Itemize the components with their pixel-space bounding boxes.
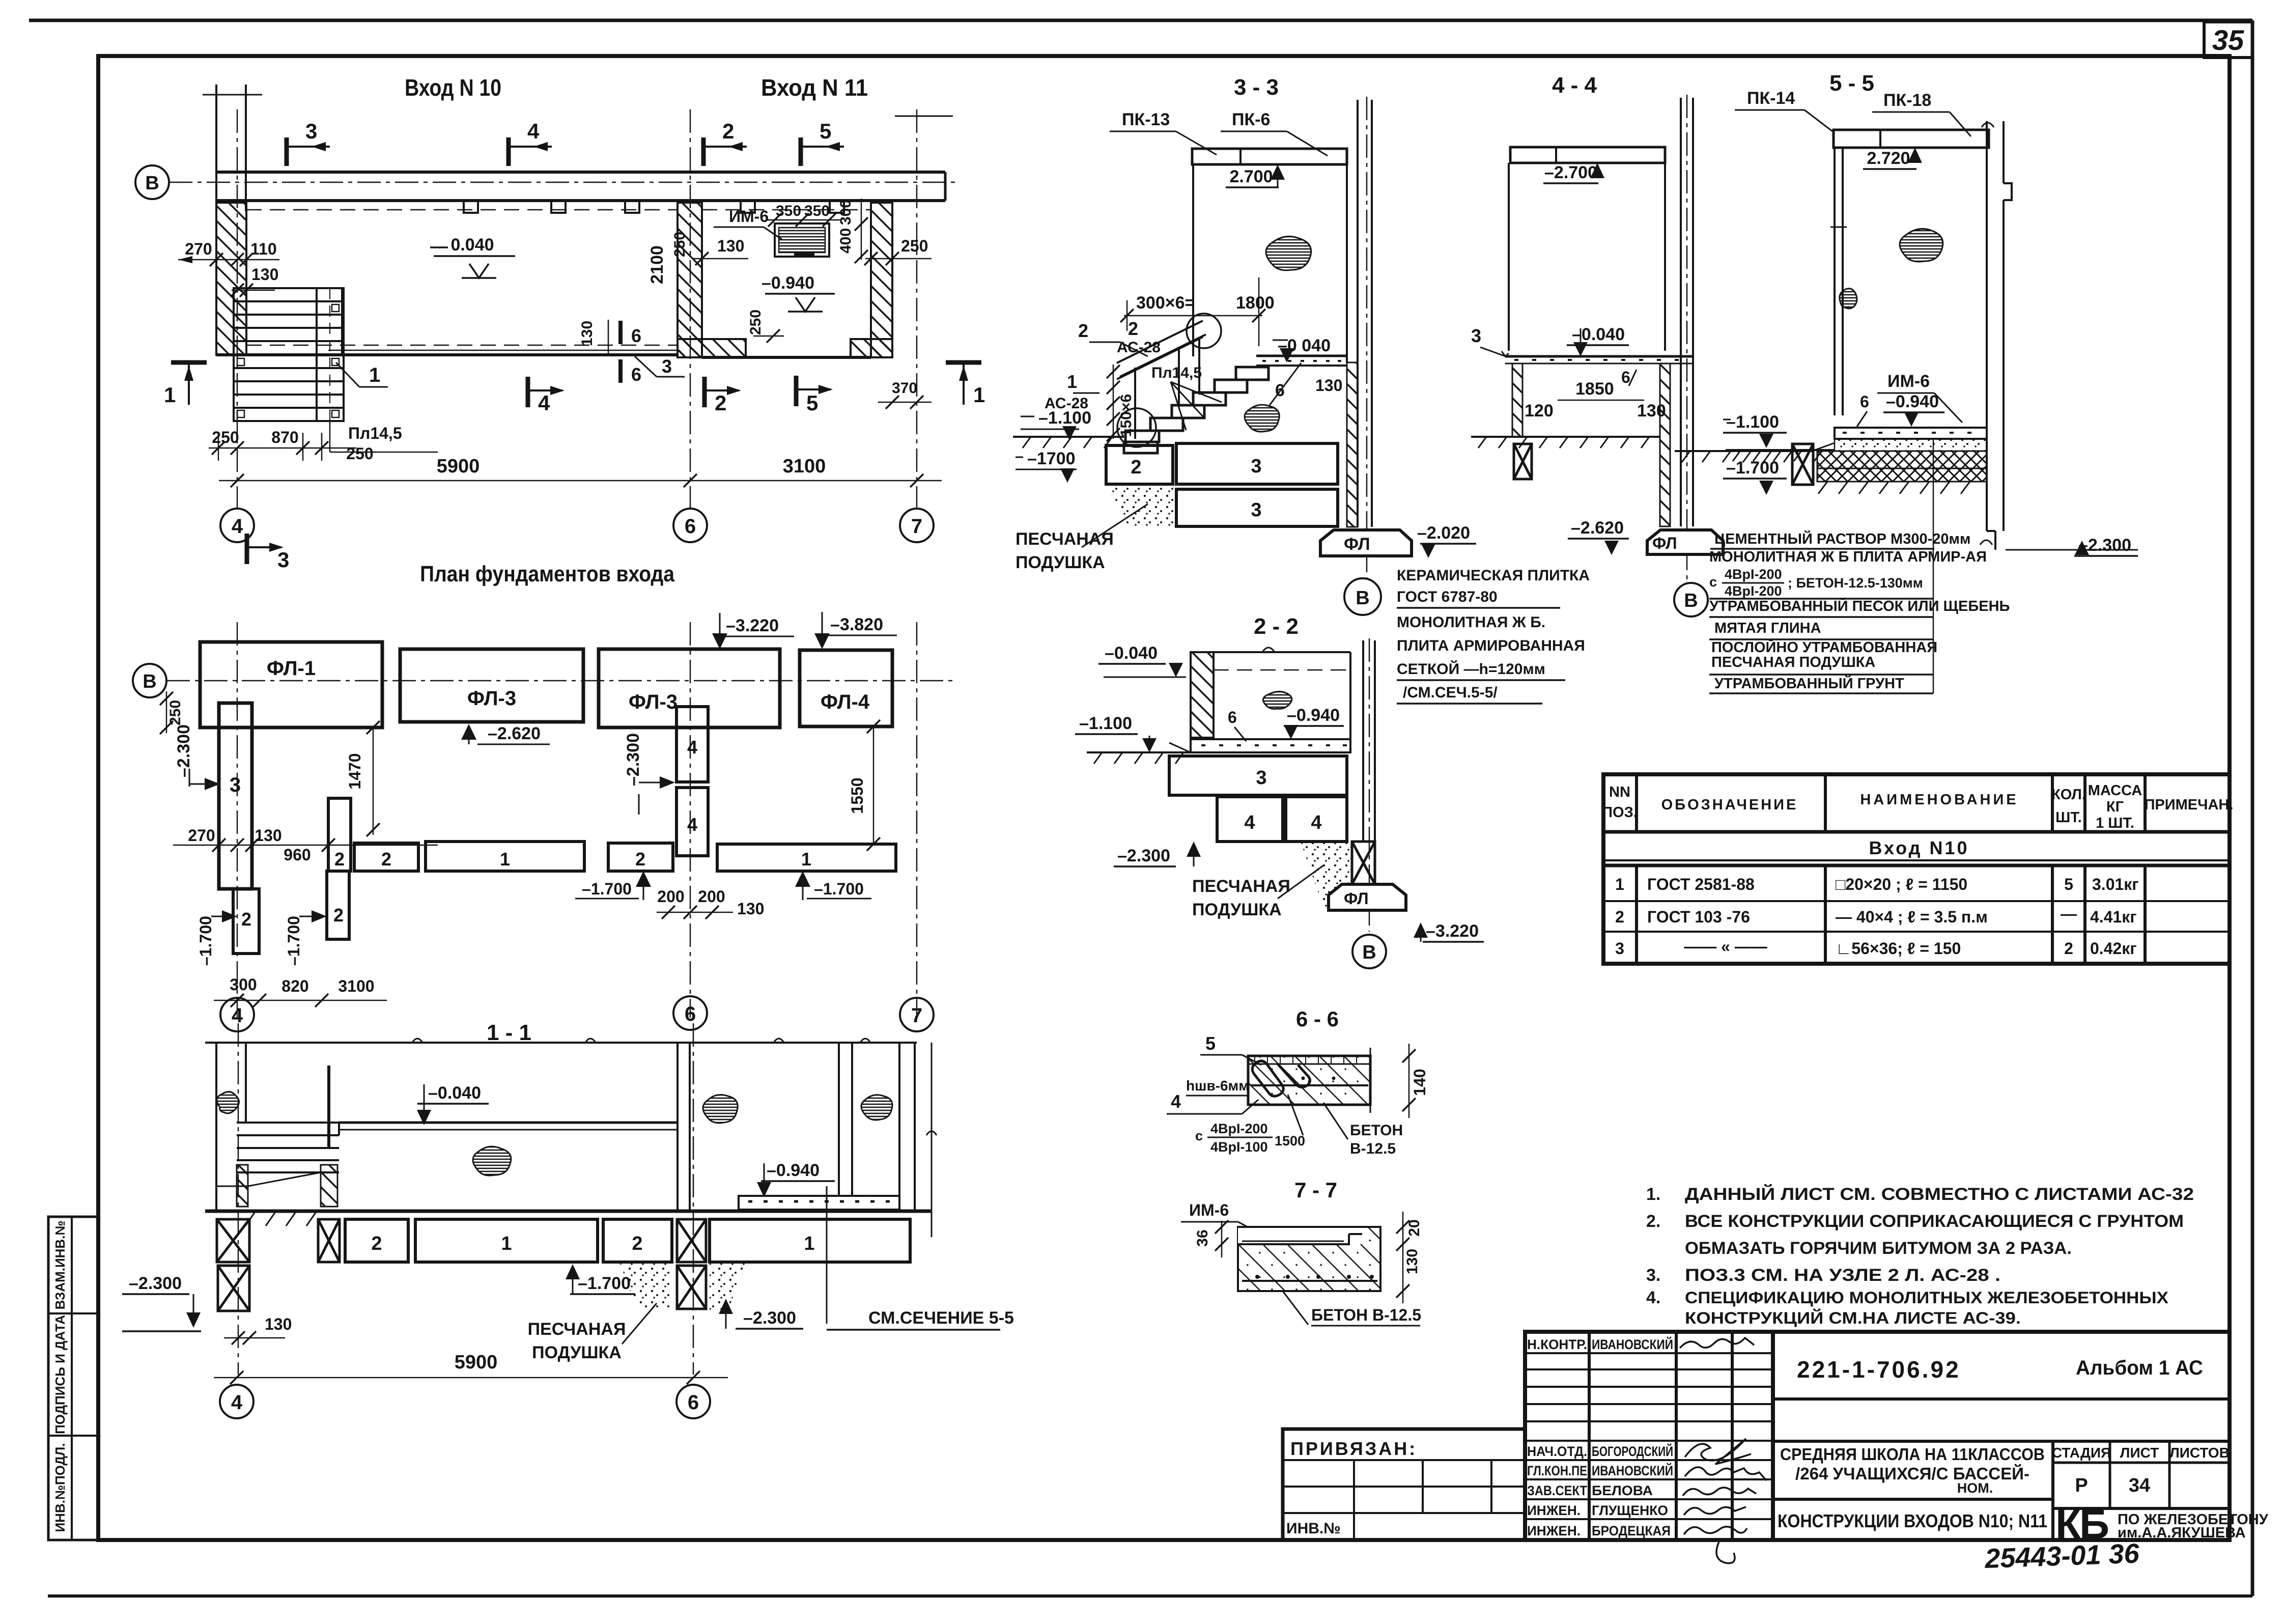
svg-text:3: 3 [662,356,672,377]
svg-text:130: 130 [737,900,764,918]
slab body [1248,1056,1370,1105]
axis circle 6 [673,509,707,542]
svg-text:4: 4 [687,814,697,835]
canopy slab top edge [216,171,945,174]
stair hatched feet [237,1165,248,1207]
block FL-3 first [400,649,583,722]
svg-text:УТРАМБОВАННЫЙ ГРУНТ: УТРАМБОВАННЫЙ ГРУНТ [1714,675,1904,692]
bottom dim 250/870/250 [209,447,356,449]
svg-text:4ВрI-200: 4ВрI-200 [1725,567,1782,582]
leader line down to layers text [1933,439,1934,693]
footing FL [1647,530,1723,554]
railing posts [1134,368,1136,439]
svg-text:4: 4 [1171,1091,1181,1112]
section mark 6 lower [618,359,623,383]
svg-text:МЯТАЯ ГЛИНА: МЯТАЯ ГЛИНА [1714,620,1821,636]
svg-text:МАССА: МАССА [2088,782,2142,799]
svg-text:250: 250 [167,700,184,725]
svg-text:–1.100: –1.100 [1726,412,1779,432]
svg-text:МОНОЛИТНАЯ Ж Б ПЛИТА АРМИР-АЯ: МОНОЛИТНАЯ Ж Б ПЛИТА АРМИР-АЯ [1709,549,1987,565]
wall panel left edge [1192,164,1194,356]
svg-text:2: 2 [635,849,645,870]
svg-text:БЕТОН В-12.5: БЕТОН В-12.5 [1311,1306,1421,1324]
railing rails [1117,321,1203,363]
axis 7 line [916,109,918,509]
svg-text:Н.КОНТР.: Н.КОНТР. [1527,1337,1587,1352]
axis 6 line [690,622,691,1018]
svg-text:140: 140 [1411,1069,1429,1096]
TITLE-BLOCK [1283,1332,2269,1574]
svg-text:НАИМЕНОВАНИЕ: НАИМЕНОВАНИЕ [1860,792,2018,808]
row 3 [1615,937,2137,958]
svg-text:1: 1 [801,849,811,870]
KB logo cell [2055,1501,2269,1548]
svg-text:6: 6 [685,515,696,538]
monolithic slab with rebar right [739,1196,899,1210]
svg-text:ПЕСЧАНАЯ: ПЕСЧАНАЯ [1192,877,1290,896]
row lines [1603,900,2230,902]
svg-text:2 - 2: 2 - 2 [1254,614,1299,639]
staff names [1527,1336,1673,1538]
svg-text:25443-01 36: 25443-01 36 [1984,1538,2140,1574]
leader label 1 [336,362,359,387]
SECTION-2-2 [1075,614,1484,968]
svg-text:–2.620: –2.620 [488,724,541,743]
svg-text:–1700: –1700 [1027,449,1076,468]
svg-text:2100: 2100 [647,245,667,284]
foundation row: xbox left [217,1219,249,1262]
school name cell [1780,1445,2045,1496]
svg-text:В: В [1684,590,1698,611]
svg-text:План фундаментов входа: План фундаментов входа [420,562,674,586]
svg-text:В-12.5: В-12.5 [1350,1140,1396,1157]
svg-text:ГЛ.КОН.ПЕ: ГЛ.КОН.ПЕ [1527,1463,1587,1478]
svg-text:ФЛ-1: ФЛ-1 [267,657,316,680]
dim line 5900 [214,1377,728,1379]
svg-text:6: 6 [1228,708,1237,726]
svg-text:Р: Р [2075,1475,2088,1496]
middle block 2 upper [328,798,351,871]
svg-text:35: 35 [2212,24,2244,56]
vhod row bottom double [1603,859,2230,861]
sand wedge right [710,1262,746,1311]
hatched wall [1191,652,1214,738]
sand pad [1106,484,1175,526]
svg-text:ПК-6: ПК-6 [1232,110,1270,129]
svg-text:4: 4 [231,1391,243,1414]
svg-text:130: 130 [1315,376,1342,395]
middle wall bottom band [678,339,746,357]
section mark 6 upper [618,321,623,344]
svg-text:1470: 1470 [346,753,364,789]
svg-text:1: 1 [501,1233,512,1254]
svg-text:4: 4 [687,737,697,758]
PLAN-ENTRANCES [135,74,985,572]
axis B circle [135,165,169,199]
svg-text:–3.220: –3.220 [726,616,779,635]
svg-text:1 - 1: 1 - 1 [487,1020,531,1045]
foundation block 3 lower [1176,489,1338,526]
svg-text:200: 200 [657,887,684,906]
svg-text:ИМ-6: ИМ-6 [729,207,769,226]
svg-text:1800: 1800 [1236,293,1275,313]
svg-text:130: 130 [579,321,596,346]
svg-text:4ВрI-200: 4ВрI-200 [1725,583,1782,599]
svg-text:ПЕСЧАНАЯ: ПЕСЧАНАЯ [528,1320,626,1339]
stair blob [1245,405,1279,432]
floor line entrance 11 [702,356,871,359]
footing FL [1320,530,1412,556]
svg-text:1: 1 [500,849,510,870]
sand layer dotted [1835,439,1987,451]
svg-text:1: 1 [1067,371,1077,392]
svg-text:КОЛ.: КОЛ. [2051,787,2086,803]
svg-text:Пл14,5: Пл14,5 [348,424,402,442]
left blob [217,1091,239,1113]
row 1 [1615,875,2139,893]
column lines right [1680,98,1682,526]
detail circle lower [1117,408,1156,447]
tile layer [1248,1063,1370,1065]
svg-text:3.: 3. [1646,1266,1660,1285]
left wall hatched (entrance 10) [216,203,246,355]
horizontal rebar [1250,1084,1368,1086]
header separator [1603,830,2230,834]
svg-text:870: 870 [271,428,298,446]
svg-text:ЛИСТ: ЛИСТ [2120,1445,2159,1461]
interior dashed line top [246,209,678,211]
section mark 3 bottom left [247,534,289,572]
svg-text:350: 350 [776,203,801,219]
svg-text:МОНОЛИТНАЯ Ж Б.: МОНОЛИТНАЯ Ж Б. [1397,614,1545,631]
stairs stepped plates [1124,367,1268,453]
svg-text:3100: 3100 [338,977,374,995]
svg-text:СТАДИЯ: СТАДИЯ [2052,1445,2111,1461]
section mark 5 bottom [796,376,833,415]
svg-text:ГОСТ 2581-88: ГОСТ 2581-88 [1647,875,1755,893]
svg-text:–2.300: –2.300 [624,733,643,786]
wall blob small [1840,289,1857,309]
svg-text:–2.700: –2.700 [1544,163,1597,182]
svg-text:ШТ.: ШТ. [2055,809,2082,826]
svg-text:В: В [143,671,156,692]
svg-text:6: 6 [631,325,641,346]
svg-text:6: 6 [1860,393,1869,411]
svg-text:370: 370 [892,380,917,397]
section mark 3 top [287,119,330,166]
svg-text:–1.700: –1.700 [582,880,632,898]
svg-text:4: 4 [538,391,550,415]
column lines body [1637,865,2145,964]
stair upper flight (plan) [234,288,342,355]
svg-text:4: 4 [232,515,243,538]
svg-text:5900: 5900 [437,456,480,477]
svg-text:1: 1 [164,383,176,407]
floor slab right [1256,355,1347,357]
right edge [1349,652,1351,739]
wall blob [1266,236,1311,270]
svg-text:5 - 5: 5 - 5 [1829,71,1874,96]
svg-text:3: 3 [277,548,289,572]
svg-text:Вход N 10: Вход N 10 [405,74,501,101]
see section 5-5 reference line [826,1186,828,1324]
svg-text:–2.020: –2.020 [1417,523,1470,543]
stair lower flight (plan) [234,355,344,421]
svg-text:2.700: 2.700 [1229,167,1273,186]
page number box [2204,22,2252,58]
top edge [1191,651,1350,653]
svg-text:4: 4 [1311,812,1321,833]
svg-text:ПЕСЧАНАЯ ПОДУШКА: ПЕСЧАНАЯ ПОДУШКА [1711,654,1875,670]
svg-text:ИНЖЕН.: ИНЖЕН. [1527,1523,1581,1538]
sand wedge [1301,842,1352,907]
svg-text:130: 130 [1404,1249,1421,1274]
rebar dots row [1242,1280,1377,1282]
block 1 right [710,1219,910,1262]
canopy joint notches [464,201,478,213]
svg-text:–3.220: –3.220 [1426,921,1479,941]
svg-text:2: 2 [632,1233,642,1254]
svg-text:–1.700: –1.700 [578,1274,631,1293]
svg-text:5: 5 [1205,1033,1216,1054]
foundation block 2 [1106,445,1173,484]
ground line right [1726,449,1835,451]
canopy slab [1510,147,1665,163]
svg-text:НАЧ.ОТД.: НАЧ.ОТД. [1527,1444,1587,1459]
svg-text:4ВрI-200: 4ВрI-200 [1210,1121,1268,1136]
footing FL [1329,884,1406,910]
svg-text:110: 110 [250,240,277,258]
svg-text:1.: 1. [1646,1185,1660,1204]
wall panel [1508,163,1510,351]
outer top border line [29,19,2252,22]
axis circle 7 [900,998,934,1031]
block FL-3 second [599,649,780,727]
svg-text:0.040: 0.040 [450,235,494,255]
svg-text:–0.940: –0.940 [762,273,814,293]
section mark 2 bottom [704,377,741,415]
stage cells [2051,1441,2054,1540]
column lines [1362,640,1364,842]
svg-text:ЛИСТОВ: ЛИСТОВ [2169,1445,2230,1461]
column xbox [1352,842,1375,884]
svg-text:В: В [1356,587,1369,609]
axis 6 dash line [693,1023,694,1375]
svg-text:2: 2 [371,1233,382,1254]
svg-text:□20×20 ; ℓ = 1150: □20×20 ; ℓ = 1150 [1836,875,1967,893]
strip block 2b [608,843,673,871]
block 2 right [603,1219,672,1262]
svg-text:–2.620: –2.620 [1571,518,1624,538]
block 2 below 3 [233,889,259,954]
svg-text:БОГОРОДСКИЙ: БОГОРОДСКИЙ [1592,1443,1673,1459]
svg-text:350: 350 [804,203,830,219]
svg-text:СЕТКОЙ —h=120мм: СЕТКОЙ —h=120мм [1397,660,1545,678]
svg-text:ГЛУЩЕНКО: ГЛУЩЕНКО [1592,1503,1668,1518]
svg-text:Пл14,5: Пл14,5 [1151,365,1202,381]
signatures squiggles [1680,1338,1766,1563]
svg-text:ГОСТ 6787-80: ГОСТ 6787-80 [1397,589,1498,605]
svg-text:ПОСЛОЙНО УТРАМБОВАННАЯ: ПОСЛОЙНО УТРАМБОВАННАЯ [1711,638,1937,656]
svg-text:3100: 3100 [783,456,826,477]
axis 7 line [916,622,918,1018]
svg-text:ФЛ-4: ФЛ-4 [821,691,870,713]
grate IM-6 [775,223,829,257]
svg-text:ПРИВЯЗАН:: ПРИВЯЗАН: [1290,1438,1417,1459]
axis 4 dash line [238,1023,239,1375]
svg-text:1 ШТ.: 1 ШТ. [2096,815,2134,831]
svg-text:2: 2 [241,909,251,930]
compacted layer crosshatch [1817,451,1987,468]
axis B dash [1686,95,1688,580]
right interior walls [838,1043,840,1196]
svg-text:–0.940: –0.940 [1886,392,1939,411]
svg-text:120: 120 [1525,401,1554,421]
svg-text:БЕТОН: БЕТОН [1350,1122,1403,1139]
svg-text:6: 6 [1621,368,1630,386]
svg-text:3: 3 [305,119,317,143]
svg-text:2: 2 [715,391,726,415]
ground line left [1087,751,1191,753]
svg-text:ИНВ.№ПОДЛ.: ИНВ.№ПОДЛ. [52,1443,68,1532]
block 2 [345,1219,408,1262]
floor slab [1505,355,1693,358]
building edge above plan left [215,85,217,211]
svg-text:СРЕДНЯЯ ШКОЛА НА 11КЛАССОВ: СРЕДНЯЯ ШКОЛА НА 11КЛАССОВ [1780,1445,2045,1464]
svg-text:–0.940: –0.940 [767,1161,820,1180]
svg-text:hшв-6мм: hшв-6мм [1186,1078,1249,1094]
svg-text:КОНСТРУКЦИИ ВХОДОВ N10; N11: КОНСТРУКЦИИ ВХОДОВ N10; N11 [1778,1510,2047,1531]
xbox small [1792,444,1813,485]
svg-text:ПК-18: ПК-18 [1883,91,1931,110]
left wall edges [215,1043,217,1211]
svg-text:3 - 3: 3 - 3 [1234,75,1279,100]
SECTION-4-4 [1471,73,1835,617]
sloped line under stairs [248,1172,321,1186]
SECTION-5-5 [1675,71,2138,693]
svg-text:1500: 1500 [1275,1133,1305,1149]
svg-text:—— « ——: —— « —— [1684,937,1767,956]
stair side view lines [237,1122,339,1124]
svg-text:270: 270 [185,240,212,258]
NOTES [1646,1184,2194,1327]
svg-text:ИВАНОВСКИЙ: ИВАНОВСКИЙ [1592,1463,1673,1478]
foundation block 3 upper [1176,443,1338,484]
xbox left lower [218,1266,249,1311]
svg-text:7 - 7: 7 - 7 [1294,1178,1337,1202]
svg-text:СМ.СЕЧЕНИЕ 5-5: СМ.СЕЧЕНИЕ 5-5 [868,1308,1014,1328]
svg-text:2.: 2. [1646,1212,1660,1231]
right pier hatched [1660,363,1670,526]
blocks 4 stacked [676,707,708,782]
svg-text:1850: 1850 [1575,379,1614,399]
canopy slab [1192,149,1347,164]
axis B circle [1674,583,1708,617]
right edge extension [1370,1048,1371,1113]
strip block 1a [426,842,584,871]
FOUNDATION-PLAN [133,562,957,1031]
wall axis6 [676,1043,679,1211]
svg-text:NN: NN [1609,784,1630,800]
left pier hatched [1512,363,1522,437]
canopy slab bottom edge [216,199,945,202]
svg-text:КОНСТРУКЦИЙ СМ.НА ЛИСТЕ АС-39: КОНСТРУКЦИЙ СМ.НА ЛИСТЕ АС-39. [1685,1309,2021,1327]
main slab top double line [339,1122,678,1124]
svg-text:300: 300 [837,200,854,225]
axis B line [169,182,957,183]
block 1 [415,1219,598,1262]
section mark 1 left [164,362,207,407]
svg-text:ФЛ-3: ФЛ-3 [629,691,678,713]
svg-text:5900: 5900 [455,1352,498,1373]
svg-text:300: 300 [230,975,257,994]
svg-text:2: 2 [1615,908,1624,926]
ground hatch left of blocks [245,1213,316,1226]
section mark 4 bottom [528,377,565,415]
xbox under left pier [1514,444,1532,479]
axis B circle [1344,578,1381,615]
axis B circle [1352,935,1386,968]
svg-text:ПЕСЧАНАЯ: ПЕСЧАНАЯ [1016,529,1114,549]
svg-text:Вход N 11: Вход N 11 [761,74,868,101]
svg-text:2: 2 [333,905,344,926]
svg-text:–2.300: –2.300 [174,724,193,777]
svg-text:ВЗАМ.ИНВ.№: ВЗАМ.ИНВ.№ [52,1221,68,1310]
svg-text:4: 4 [527,119,540,143]
svg-text:В: В [1362,942,1376,963]
svg-text:400: 400 [837,228,854,254]
svg-text:ПК-13: ПК-13 [1122,110,1170,129]
svg-text:960: 960 [284,846,311,864]
svg-text:ЗАВ.СЕКТ: ЗАВ.СЕКТ [1527,1483,1587,1498]
svg-text:7: 7 [911,515,922,538]
svg-text:250: 250 [346,444,373,463]
svg-text:— 40×4 ; ℓ = 3.5 п.м: — 40×4 ; ℓ = 3.5 п.м [1836,908,1988,926]
column lines header [1637,774,2145,832]
SECTION-7-7 [1181,1178,1423,1326]
svg-text:5: 5 [806,391,818,415]
svg-text:ОБМАЗАТЬ ГОРЯЧИМ БИТУМОМ ЗА: ОБМАЗАТЬ ГОРЯЧИМ БИТУМОМ ЗА 2 РАЗА. [1685,1239,2072,1258]
svg-text:–1.700: –1.700 [814,880,864,898]
svg-text:3: 3 [1615,939,1624,958]
svg-text:/СМ.СЕЧ.5-5/: /СМ.СЕЧ.5-5/ [1403,684,1498,701]
svg-text:250: 250 [747,310,764,335]
svg-text:1: 1 [1615,875,1624,893]
svg-text:1: 1 [369,364,380,386]
svg-text:КГ: КГ [2106,799,2124,815]
svg-text:ПОДПИСЬ И ДАТА: ПОДПИСЬ И ДАТА [52,1315,68,1434]
svg-text:; БЕТОН-12.5-130мм: ; БЕТОН-12.5-130мм [1788,575,1923,591]
slab with rebar [1191,739,1350,752]
xbox mid-left [318,1219,340,1262]
ground line left [1471,436,1659,438]
xbox axis6 lower [677,1266,706,1309]
svg-text:6: 6 [631,364,641,385]
svg-text:4.: 4. [1646,1288,1660,1307]
svg-text:ФЛ: ФЛ [1344,889,1369,908]
axis dash [1369,638,1370,932]
axis circle 7 [900,509,934,542]
svg-text:В: В [145,173,159,194]
svg-text:5: 5 [2064,875,2073,893]
middle wall hatched [678,203,702,357]
main dim line 5900/3100 [219,480,942,482]
svg-text:250: 250 [212,428,239,446]
blob near axis6 [703,1095,738,1123]
xbox axis6 [677,1219,706,1262]
svg-text:—: — [2061,905,2077,923]
svg-text:130: 130 [251,265,278,284]
